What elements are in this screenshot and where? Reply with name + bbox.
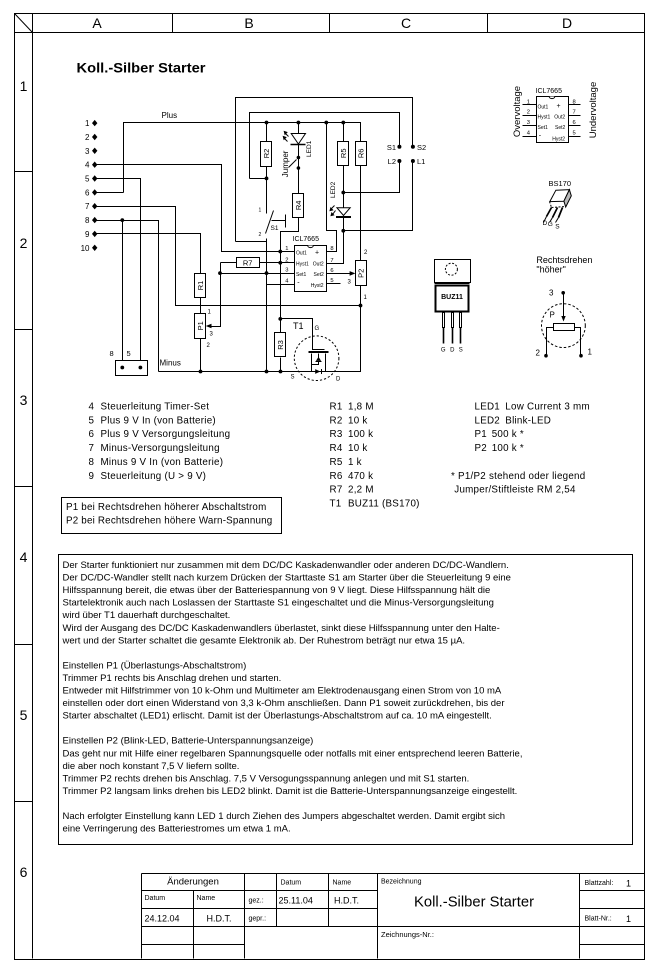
svg-text:10: 10 bbox=[81, 244, 90, 253]
svg-text:LED1: LED1 bbox=[306, 140, 313, 157]
svg-text:Plus: Plus bbox=[162, 111, 178, 120]
svg-text:eine Verringerung des Batterie: eine Verringerung des Batteriestromes um… bbox=[63, 824, 291, 835]
svg-text:3: 3 bbox=[549, 289, 554, 298]
terminal S2 bbox=[411, 143, 426, 152]
svg-text:Einstellen P1 (Überlastungs-Ab: Einstellen P1 (Überlastungs-Abschaltstro… bbox=[63, 660, 247, 671]
svg-text:6: 6 bbox=[89, 429, 95, 440]
svg-text:P: P bbox=[550, 311, 555, 320]
value labels resistors bbox=[330, 401, 420, 509]
wire R7 to Hyst1 bbox=[260, 262, 295, 264]
svg-text:L2: L2 bbox=[388, 157, 396, 166]
wire L1 bbox=[344, 161, 413, 231]
resistor R7 bbox=[237, 258, 260, 268]
svg-text:+: + bbox=[557, 103, 561, 110]
svg-text:A: A bbox=[92, 15, 102, 31]
LED LED2 bbox=[329, 181, 351, 217]
note box P1 P2 bbox=[62, 498, 282, 534]
svg-text:Out1: Out1 bbox=[296, 251, 307, 257]
svg-text:R2: R2 bbox=[262, 149, 271, 159]
svg-text:"höher": "höher" bbox=[536, 265, 565, 275]
svg-text:BUZ11 (BS170): BUZ11 (BS170) bbox=[348, 498, 420, 509]
svg-text:24.12.04: 24.12.04 bbox=[145, 914, 180, 924]
node Minus label bbox=[160, 359, 181, 368]
wire pin6 to Plus bbox=[95, 192, 124, 194]
svg-text:P1: P1 bbox=[196, 321, 205, 330]
svg-text:H.D.T.: H.D.T. bbox=[334, 896, 359, 906]
svg-text:gepr.:: gepr.: bbox=[249, 916, 267, 923]
junction Minus rail dots bbox=[199, 304, 363, 374]
svg-text:R5: R5 bbox=[339, 149, 348, 159]
svg-text:R3: R3 bbox=[276, 340, 285, 350]
junction Out1 net dots bbox=[278, 250, 282, 321]
svg-text:R7: R7 bbox=[330, 485, 343, 496]
svg-text:Blattzahl:: Blattzahl: bbox=[585, 880, 614, 887]
svg-text:Trimmer P1 rechts bis Anschlag: Trimmer P1 rechts bis Anschlag drehen un… bbox=[63, 673, 282, 684]
node Plus label bbox=[162, 111, 178, 120]
svg-text:G: G bbox=[548, 221, 553, 228]
svg-text:3: 3 bbox=[527, 120, 530, 126]
wire Set2 pin6 to P2 wiper bbox=[327, 271, 356, 276]
svg-text:Bezeichnung: Bezeichnung bbox=[381, 879, 422, 886]
svg-text:2: 2 bbox=[536, 349, 541, 358]
svg-text:7: 7 bbox=[89, 443, 95, 454]
svg-text:+: + bbox=[315, 250, 319, 257]
connector pin 10 bbox=[81, 244, 98, 253]
potentiometer P1 bbox=[195, 310, 214, 350]
value labels LEDs and pots bbox=[451, 401, 590, 495]
svg-text:* P1/P2 stehend oder liegend: * P1/P2 stehend oder liegend bbox=[451, 471, 585, 482]
svg-text:LED1: LED1 bbox=[475, 401, 501, 412]
svg-text:Plus 9 V In (von Batterie): Plus 9 V In (von Batterie) bbox=[101, 415, 216, 426]
wire LED2 cathode junction bbox=[341, 217, 345, 233]
svg-text:R4: R4 bbox=[330, 443, 343, 454]
IC pinout ICL7665 bbox=[512, 82, 599, 143]
jumper bbox=[281, 150, 300, 177]
svg-text:Low Current 3 mm: Low Current 3 mm bbox=[505, 401, 590, 412]
wire R6 to P2 bbox=[360, 166, 362, 261]
wire P1 to Minus bbox=[200, 339, 202, 372]
svg-text:6: 6 bbox=[20, 864, 28, 880]
svg-text:1: 1 bbox=[20, 78, 28, 94]
svg-text:G: G bbox=[441, 348, 446, 354]
svg-text:S: S bbox=[291, 375, 295, 381]
svg-text:1: 1 bbox=[285, 246, 288, 252]
svg-text:1: 1 bbox=[626, 914, 631, 924]
wire pin4 to Out1 bbox=[95, 165, 295, 252]
switch S1 bbox=[259, 208, 286, 239]
svg-text:Set2: Set2 bbox=[555, 125, 566, 131]
terminal L2 bbox=[388, 157, 402, 166]
svg-text:R1: R1 bbox=[330, 401, 343, 412]
resistor R6 bbox=[356, 142, 367, 166]
op-amp U1 ICL7665 bbox=[285, 236, 333, 292]
title block bbox=[142, 874, 645, 959]
svg-text:P1 bei Rechtsdrehen höherer Ab: P1 bei Rechtsdrehen höherer Abschaltstro… bbox=[66, 502, 266, 513]
potentiometer symbol P bbox=[536, 289, 593, 358]
resistor R1 bbox=[195, 274, 206, 298]
connector pin 9 bbox=[85, 230, 97, 239]
wire R3 to Minus bbox=[280, 358, 282, 372]
svg-text:R7: R7 bbox=[243, 258, 253, 267]
svg-text:R6: R6 bbox=[357, 149, 366, 159]
svg-text:Name: Name bbox=[197, 895, 216, 902]
wire Minus rail bbox=[159, 286, 361, 372]
svg-text:10 k: 10 k bbox=[348, 443, 368, 454]
svg-text:ICL7665: ICL7665 bbox=[536, 88, 563, 95]
svg-text:C: C bbox=[401, 15, 411, 31]
wire Set1 line bbox=[221, 271, 295, 275]
svg-text:die aber noch konstant 7,5 V l: die aber noch konstant 7,5 V liefern sol… bbox=[63, 761, 240, 772]
svg-text:S1: S1 bbox=[271, 225, 279, 232]
svg-text:ICL7665: ICL7665 bbox=[293, 236, 320, 243]
wire R7 left bbox=[221, 262, 237, 264]
wire R5 to LED2 bbox=[341, 166, 345, 208]
svg-text:Set1: Set1 bbox=[538, 125, 549, 131]
resistor R4 bbox=[293, 194, 304, 218]
terminal S1 bbox=[387, 143, 402, 152]
wire pin7 to P2 pin1 bbox=[95, 207, 361, 306]
connector box 8/5 bbox=[110, 349, 148, 376]
svg-text:gez.:: gez.: bbox=[249, 898, 264, 905]
LED LED1 bbox=[283, 121, 314, 157]
connector pin 7 bbox=[85, 202, 97, 211]
svg-text:Minus-Versorgungsleitung: Minus-Versorgungsleitung bbox=[101, 443, 220, 454]
wire S1 bottom to chip bbox=[236, 241, 267, 243]
svg-text:R2: R2 bbox=[330, 415, 343, 426]
potentiometer P2 bbox=[348, 250, 369, 301]
wire R4 to Out1 net bbox=[281, 218, 299, 333]
svg-text:Out2: Out2 bbox=[554, 115, 565, 121]
wire S2 loop bbox=[236, 98, 413, 242]
description text box bbox=[59, 555, 633, 845]
wire pin5 to connector box bbox=[95, 179, 141, 368]
svg-text:10 k: 10 k bbox=[348, 415, 368, 426]
svg-text:3: 3 bbox=[85, 147, 90, 156]
svg-text:Datum: Datum bbox=[281, 880, 302, 887]
resistor R5 bbox=[338, 142, 349, 166]
svg-text:R5: R5 bbox=[330, 457, 343, 468]
svg-text:Jumper/Stiftleiste RM 2,54: Jumper/Stiftleiste RM 2,54 bbox=[454, 485, 576, 496]
svg-text:Name: Name bbox=[333, 880, 352, 887]
potentiometer adjustment note bbox=[536, 255, 592, 275]
wire S1 loop bbox=[250, 113, 400, 179]
svg-text:6: 6 bbox=[85, 188, 90, 197]
svg-text:Startelektronik auch nach Losl: Startelektronik auch nach Loslassen der … bbox=[63, 598, 494, 609]
svg-text:Minus 9 V In (von Batterie): Minus 9 V In (von Batterie) bbox=[101, 457, 224, 468]
connector pin 3 bbox=[85, 147, 97, 156]
svg-text:1: 1 bbox=[626, 879, 631, 889]
svg-text:5: 5 bbox=[127, 349, 131, 358]
svg-text:4: 4 bbox=[85, 161, 90, 170]
svg-text:G: G bbox=[315, 326, 320, 332]
svg-text:Koll.-Silber Starter: Koll.-Silber Starter bbox=[77, 60, 207, 76]
svg-text:1 k: 1 k bbox=[348, 457, 362, 468]
svg-text:Rechtsdrehen: Rechtsdrehen bbox=[536, 255, 592, 265]
svg-text:3: 3 bbox=[285, 268, 288, 274]
transistor T1 bbox=[291, 321, 342, 383]
svg-text:1: 1 bbox=[85, 119, 90, 128]
svg-text:R3: R3 bbox=[330, 429, 343, 440]
svg-text:Zeichnungs-Nr.:: Zeichnungs-Nr.: bbox=[381, 930, 434, 939]
svg-text:1: 1 bbox=[588, 348, 593, 357]
svg-text:Trimmer P2 rechts drehen bis A: Trimmer P2 rechts drehen bis Anschlag. 7… bbox=[63, 773, 470, 784]
svg-text:S2: S2 bbox=[417, 143, 426, 152]
transistor package BUZ11 bbox=[435, 260, 471, 354]
svg-text:wert und der Starter schaltet: wert und der Starter schaltet die gesamt… bbox=[62, 635, 466, 646]
wire T1 gate bbox=[281, 319, 325, 350]
svg-text:Wird der Ausgang des DC/DC Kas: Wird der Ausgang des DC/DC Kaskadenwandl… bbox=[63, 623, 500, 634]
svg-text:P1: P1 bbox=[475, 429, 487, 440]
svg-text:Koll.-Silber Starter: Koll.-Silber Starter bbox=[414, 895, 534, 911]
svg-text:100 k: 100 k bbox=[348, 429, 373, 440]
wire pin8 to Minus bbox=[95, 221, 159, 372]
svg-text:1,8 M: 1,8 M bbox=[348, 401, 374, 412]
svg-text:BUZ11: BUZ11 bbox=[441, 294, 463, 301]
svg-text:Blatt-Nr.:: Blatt-Nr.: bbox=[585, 916, 612, 923]
svg-text:Out2: Out2 bbox=[313, 261, 324, 267]
svg-text:1: 1 bbox=[259, 208, 262, 214]
svg-text:BS170: BS170 bbox=[549, 179, 572, 188]
svg-text:R1: R1 bbox=[196, 281, 205, 291]
wire jumper to R4 bbox=[298, 169, 300, 194]
connector pin 6 bbox=[85, 188, 97, 197]
svg-text:S: S bbox=[555, 224, 560, 231]
svg-text:D: D bbox=[450, 348, 455, 354]
svg-text:2: 2 bbox=[259, 232, 262, 238]
wire Out2 pin7 bbox=[327, 217, 344, 264]
pin legend list bbox=[89, 401, 231, 481]
connector pin 4 bbox=[85, 161, 97, 170]
wire pin8 branch to connector box bbox=[120, 218, 124, 367]
wire box2 to R2 bbox=[250, 177, 269, 181]
connector pin 8 bbox=[85, 216, 97, 225]
svg-text:H.D.T.: H.D.T. bbox=[206, 914, 231, 924]
svg-text:S1: S1 bbox=[387, 143, 396, 152]
svg-text:P2: P2 bbox=[357, 269, 366, 278]
svg-text:500 k *: 500 k * bbox=[492, 429, 524, 440]
svg-text:6: 6 bbox=[573, 120, 576, 126]
svg-text:9: 9 bbox=[89, 471, 95, 482]
svg-text:7: 7 bbox=[85, 202, 90, 211]
wire L2 bbox=[344, 161, 400, 193]
svg-text:LED2: LED2 bbox=[475, 415, 501, 426]
svg-text:Hyst2: Hyst2 bbox=[552, 136, 565, 142]
svg-text:Einstellen P2 (Blink-LED, Batt: Einstellen P2 (Blink-LED, Batterie-Unter… bbox=[63, 736, 314, 747]
wire Hyst2 pin5 stub bbox=[327, 283, 341, 285]
svg-text:Set1: Set1 bbox=[296, 272, 307, 278]
svg-text:Jumper: Jumper bbox=[281, 150, 290, 177]
svg-text:Das geht nur mit Hilfe einer r: Das geht nur mit Hilfe einer regelbaren … bbox=[63, 748, 523, 759]
svg-text:Minus: Minus bbox=[160, 359, 181, 368]
wire pin9 to R1 bbox=[95, 234, 201, 274]
connector pin 1 bbox=[85, 119, 97, 128]
svg-text:Hilfsspannung bereit, die etwa: Hilfsspannung bereit, die etwas über der… bbox=[63, 585, 491, 596]
connector pin 5 bbox=[85, 175, 97, 184]
svg-text:D: D bbox=[336, 377, 341, 383]
svg-text:P2 bei Rechtsdrehen höhere War: P2 bei Rechtsdrehen höhere Warn-Spannung bbox=[66, 516, 272, 527]
svg-text:Nach erfolgter Einstellung kan: Nach erfolgter Einstellung kann LED 1 du… bbox=[63, 811, 506, 822]
svg-text:Blink-LED: Blink-LED bbox=[505, 415, 551, 426]
wire Plus rail bbox=[124, 123, 361, 193]
svg-text:R6: R6 bbox=[330, 471, 343, 482]
svg-text:4: 4 bbox=[20, 549, 28, 565]
schematic title bbox=[77, 60, 207, 76]
terminal L1 bbox=[411, 157, 425, 166]
svg-text:R4: R4 bbox=[294, 201, 303, 211]
wire switch vertical / chip GND bbox=[267, 239, 295, 372]
svg-text:100 k *: 100 k * bbox=[492, 443, 524, 454]
svg-text:Out1: Out1 bbox=[538, 104, 549, 110]
wire R1 to P1 bbox=[200, 298, 202, 314]
svg-text:8: 8 bbox=[89, 457, 95, 468]
svg-text:Starter abschaltet (LED1) erl: Starter abschaltet (LED1) erlischt. Dami… bbox=[63, 711, 492, 722]
svg-text:5: 5 bbox=[89, 415, 95, 426]
svg-text:470 k: 470 k bbox=[348, 471, 373, 482]
svg-text:9: 9 bbox=[85, 230, 90, 239]
svg-text:L1: L1 bbox=[417, 157, 425, 166]
svg-text:Hyst1: Hyst1 bbox=[296, 261, 309, 267]
wire Plus to R5 bbox=[341, 121, 345, 142]
svg-text:Steuerleitung Timer-Set: Steuerleitung Timer-Set bbox=[101, 401, 210, 412]
resistor R3 bbox=[275, 333, 286, 357]
svg-text:Entweder mit Hilfstrimmer von: Entweder mit Hilfstrimmer von 10 k-Ohm u… bbox=[63, 686, 502, 697]
svg-text:3: 3 bbox=[20, 392, 28, 408]
svg-text:5: 5 bbox=[20, 707, 28, 723]
svg-text:8: 8 bbox=[110, 349, 114, 358]
svg-text:T1: T1 bbox=[293, 321, 304, 331]
svg-text:D: D bbox=[562, 15, 572, 31]
resistor R2 bbox=[261, 142, 272, 167]
connector pin 2 bbox=[85, 133, 97, 142]
svg-text:1: 1 bbox=[527, 99, 530, 105]
svg-text:25.11.04: 25.11.04 bbox=[279, 896, 313, 906]
svg-text:2: 2 bbox=[285, 257, 288, 263]
svg-text:LED2: LED2 bbox=[330, 181, 337, 198]
svg-text:wird über T1 dauerhaft durchge: wird über T1 dauerhaft durchgeschaltet. bbox=[62, 610, 231, 621]
svg-text:4: 4 bbox=[89, 401, 95, 412]
svg-text:5: 5 bbox=[85, 175, 90, 184]
svg-text:D: D bbox=[543, 220, 548, 227]
wire P1 wiper bbox=[206, 263, 222, 329]
svg-text:Overvoltage: Overvoltage bbox=[512, 86, 523, 137]
svg-text:Änderungen: Änderungen bbox=[167, 877, 219, 888]
svg-text:8: 8 bbox=[85, 216, 90, 225]
svg-text:7: 7 bbox=[330, 258, 333, 264]
svg-text:7: 7 bbox=[573, 110, 576, 116]
svg-text:Der Starter funktioniert nur z: Der Starter funktioniert nur zusammen mi… bbox=[63, 560, 509, 571]
transistor package BS170 bbox=[543, 179, 572, 231]
svg-text:Steuerleitung (U > 9 V): Steuerleitung (U > 9 V) bbox=[101, 471, 207, 482]
svg-text:2: 2 bbox=[85, 133, 90, 142]
svg-text:T1: T1 bbox=[330, 498, 342, 509]
svg-text:B: B bbox=[244, 15, 253, 31]
wire Plus to R2 bbox=[265, 121, 269, 142]
wire LED1 to jumper bbox=[298, 145, 300, 158]
svg-text:Undervoltage: Undervoltage bbox=[588, 82, 599, 139]
svg-text:Der DC/DC-Wandler stellt nach: Der DC/DC-Wandler stellt nach kurzem Drü… bbox=[63, 573, 511, 584]
svg-text:2: 2 bbox=[20, 235, 28, 251]
svg-text:Datum: Datum bbox=[145, 895, 166, 902]
svg-text:Hyst2: Hyst2 bbox=[311, 283, 324, 289]
svg-text:Hyst1: Hyst1 bbox=[538, 115, 551, 121]
svg-text:2,2 M: 2,2 M bbox=[348, 485, 374, 496]
wire R2 to switch bbox=[266, 167, 268, 214]
svg-text:Trimmer P2 langsam links drehe: Trimmer P2 langsam links drehen bis LED2… bbox=[63, 786, 518, 797]
svg-text:S: S bbox=[459, 348, 463, 354]
wire V+ pin8 bbox=[324, 121, 336, 252]
svg-text:8: 8 bbox=[573, 99, 576, 105]
svg-text:Set2: Set2 bbox=[314, 272, 325, 278]
svg-text:2: 2 bbox=[527, 110, 530, 116]
svg-text:Plus 9 V Versorgungsleitung: Plus 9 V Versorgungsleitung bbox=[101, 429, 231, 440]
svg-text:einstellen oder dort einen Wid: einstellen oder dort einen Widerstand vo… bbox=[63, 698, 505, 709]
svg-text:5: 5 bbox=[573, 130, 576, 136]
svg-text:P2: P2 bbox=[475, 443, 487, 454]
